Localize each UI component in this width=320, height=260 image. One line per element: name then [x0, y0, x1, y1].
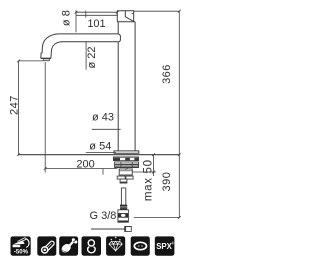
max50 bottom extension	[132, 171, 156, 173]
366/390 dimension line	[178, 11, 180, 217]
icon 6 oval	[131, 236, 150, 255]
247 top extension	[19, 60, 44, 62]
icon 5 diamond	[106, 236, 125, 255]
247 dimension line	[18, 61, 20, 155]
o54 leader line	[86, 152, 116, 154]
icon 2 thermometer	[37, 236, 56, 255]
svg-text:G 3/8: G 3/8	[90, 210, 117, 222]
svg-text:ø 8: ø 8	[60, 10, 72, 26]
svg-text:200: 200	[76, 158, 94, 170]
spout inner bend	[51, 42, 61, 58]
faucet lever handle	[117, 11, 133, 22]
hose connection stub	[120, 179, 127, 183]
svg-text:ø 54: ø 54	[89, 140, 111, 152]
dimension 101 arrows	[75, 11, 119, 14]
366 top extension line	[134, 10, 180, 12]
o22 leader line	[85, 42, 87, 70]
hose end fitting	[118, 210, 129, 223]
icon 7 SPX	[155, 236, 175, 255]
svg-text:366: 366	[161, 64, 173, 84]
lever tip inner step	[132, 12, 134, 14]
svg-text:ø 22: ø 22	[86, 46, 98, 68]
icon 3 drumstick	[59, 236, 78, 255]
G3/8 vertical tick line	[102, 169, 104, 175]
lever inner edge	[125, 11, 133, 22]
svg-text:390: 390	[161, 172, 173, 192]
max50 dimension line	[153, 155, 155, 176]
lower shank block	[119, 169, 132, 175]
body left side	[117, 22, 119, 151]
200 dimension line	[45, 168, 117, 170]
dim arrows right side	[178, 10, 181, 219]
mounting nut	[115, 162, 139, 168]
base plate	[114, 151, 139, 153]
body top cap line	[117, 21, 135, 23]
max50 arrows	[152, 153, 155, 173]
svg-text:®: ®	[171, 241, 174, 245]
200 arrows	[44, 167, 128, 170]
counter line	[19, 154, 180, 156]
svg-text:SPX: SPX	[156, 242, 172, 251]
icon 4 rings	[82, 236, 102, 255]
svg-text:247: 247	[9, 95, 21, 115]
390 bottom extension line	[134, 217, 180, 219]
threaded nipple	[120, 205, 127, 210]
dimension o8 upper line	[76, 11, 117, 13]
svg-text:-50%: -50%	[14, 250, 29, 256]
200 left extension line	[44, 62, 46, 173]
247 arrows	[17, 60, 20, 157]
spout tube top line	[58, 33, 119, 35]
spout tube bottom line	[61, 41, 118, 43]
tube-body joint bulge	[118, 34, 120, 42]
spout tip	[41, 57, 52, 59]
aerator stub	[43, 59, 49, 61]
svg-text:101: 101	[87, 18, 105, 30]
spout outer bend	[41, 34, 58, 58]
washer under counter	[113, 157, 138, 161]
svg-text:max 50: max 50	[142, 159, 154, 201]
body right side	[134, 22, 136, 151]
flexible hose	[121, 188, 125, 205]
small box with leader below fitting	[91, 228, 125, 230]
lip washers pair	[117, 176, 133, 179]
dimension o8 lower line	[76, 14, 117, 16]
dimension o8 tick	[85, 11, 87, 18]
icon 1 water saving -50%	[11, 236, 31, 255]
svg-text:ø 43: ø 43	[92, 112, 114, 124]
dimension o8 extension line vertical	[75, 10, 77, 32]
o43 leader line	[92, 128, 121, 130]
